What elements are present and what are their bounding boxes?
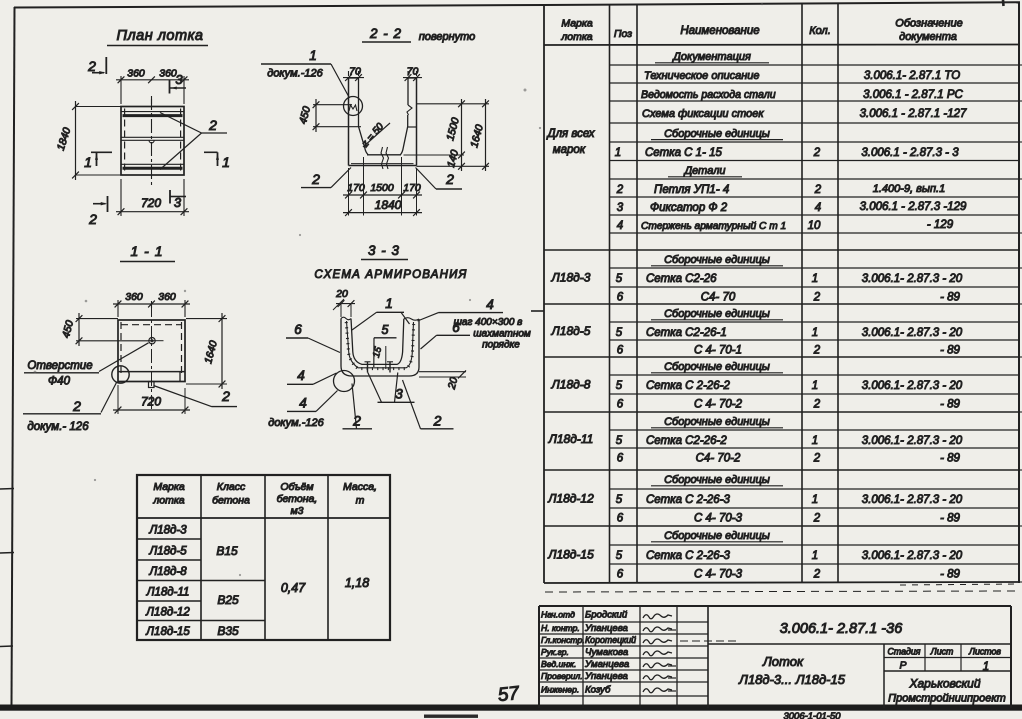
- svg-text:6: 6: [617, 345, 624, 357]
- svg-text:Бродский: Бродский: [585, 610, 628, 621]
- svg-text:0,47: 0,47: [281, 581, 306, 595]
- svg-text:170: 170: [347, 182, 365, 194]
- svg-text:2: 2: [813, 399, 821, 411]
- svg-text:1,18: 1,18: [345, 576, 369, 590]
- svg-text:1: 1: [222, 154, 230, 170]
- svg-text:докум.-126: докум.-126: [267, 68, 323, 80]
- svg-text:Кол.: Кол.: [809, 25, 831, 37]
- 1-1 label 2 / докум.-126 bottom left: [101, 383, 117, 413]
- svg-text:Л18д-8: Л18д-8: [148, 566, 187, 578]
- svg-text:1: 1: [812, 435, 818, 447]
- svg-text:- 89: - 89: [940, 399, 960, 411]
- svg-text:- 89: - 89: [940, 345, 960, 357]
- svg-text:1: 1: [84, 154, 92, 170]
- svg-text:Чумакова: Чумакова: [585, 647, 628, 658]
- svg-text:Сетка С 1- 15: Сетка С 1- 15: [645, 147, 722, 159]
- plan dim 360+360 top: [120, 76, 122, 104]
- svg-text:4: 4: [297, 368, 305, 383]
- svg-text:С 4- 70-2: С 4- 70-2: [694, 399, 743, 411]
- 1-1 dim 360+360: [117, 300, 119, 317]
- svg-text:170: 170: [403, 182, 421, 194]
- dim 450 left of section 2-2: [313, 104, 352, 106]
- svg-text:360: 360: [158, 291, 176, 303]
- fragment below bottom edge left: [424, 715, 478, 718]
- svg-text:1: 1: [812, 273, 818, 285]
- title block grid: [539, 606, 1011, 708]
- svg-text:Р: Р: [899, 660, 906, 672]
- dim 1840 bottom: [343, 212, 422, 214]
- wall crossing mark right (450 level): [408, 126, 417, 128]
- 1-1 dim 1640: [186, 318, 227, 320]
- 3-3 channel outer contour: [341, 319, 419, 377]
- svg-text:360: 360: [125, 291, 143, 303]
- svg-text:Л18д-15: Л18д-15: [145, 626, 190, 638]
- svg-text:2: 2: [87, 58, 96, 74]
- svg-text:2: 2: [813, 147, 821, 159]
- svg-text:Л18д-15: Л18д-15: [547, 548, 594, 562]
- svg-text:1: 1: [812, 327, 818, 339]
- right extension lines: [417, 103, 490, 105]
- svg-text:2: 2: [813, 292, 821, 304]
- svg-text:повернуто: повернуто: [419, 31, 476, 43]
- svg-text:2: 2: [445, 171, 454, 187]
- svg-text:Сборочные единицы: Сборочные единицы: [664, 254, 770, 266]
- svg-text:5: 5: [616, 327, 623, 339]
- svg-text:70: 70: [349, 66, 361, 78]
- svg-text:Сборочные единицы: Сборочные единицы: [664, 530, 770, 542]
- dim 70 right wall: [407, 71, 409, 76]
- svg-text:1: 1: [983, 661, 989, 673]
- svg-text:Л18д-3... Л18д-15: Л18д-3... Л18д-15: [738, 672, 846, 687]
- plan section mark 1 left: [91, 151, 112, 153]
- svg-text:шахматном: шахматном: [473, 329, 531, 340]
- fold mark right of drawing area: [531, 310, 544, 312]
- svg-text:2: 2: [311, 171, 320, 187]
- svg-text:3.006.1- 2.87.3 - 20: 3.006.1- 2.87.3 - 20: [862, 380, 963, 392]
- 1-1 hole label: Отверстие Ф40: [99, 343, 149, 372]
- svg-text:Инженер.: Инженер.: [541, 685, 579, 695]
- 3-3 wall top caps: [341, 317, 351, 320]
- 1-1 hole: [149, 338, 155, 344]
- svg-text:10: 10: [808, 220, 821, 232]
- svg-text:2: 2: [433, 413, 442, 429]
- svg-text:4: 4: [815, 202, 821, 214]
- svg-text:1.400-9, вып.1: 1.400-9, вып.1: [873, 183, 945, 195]
- spec table outer borders: [543, 5, 545, 583]
- plan section mark 3 top: [169, 80, 171, 94]
- svg-text:Фиксатор Ф 2: Фиксатор Ф 2: [650, 202, 728, 214]
- svg-text:- 89: - 89: [940, 569, 960, 581]
- svg-text:Л18д-12: Л18д-12: [547, 492, 594, 506]
- dims 170 1500 170: [348, 168, 350, 216]
- svg-text:Объём: Объём: [280, 481, 313, 493]
- 1-1 dim 450: [76, 318, 118, 320]
- svg-text:3 - 3: 3 - 3: [368, 243, 400, 258]
- svg-text:С 4- 70-3: С 4- 70-3: [694, 569, 743, 581]
- svg-text:1: 1: [385, 296, 393, 311]
- section 2-2 floor and slab: [367, 154, 401, 156]
- 3-3 channel inner contour: [351, 319, 404, 365]
- svg-text:6: 6: [617, 569, 624, 581]
- svg-text:Сетка С 2-26-2: Сетка С 2-26-2: [646, 380, 731, 392]
- svg-text:3.006.1- 2.87.1 -36: 3.006.1- 2.87.1 -36: [780, 621, 903, 637]
- 1-1 center line: [151, 303, 153, 411]
- svg-text:57: 57: [497, 683, 522, 706]
- svg-text:Масса,: Масса,: [343, 481, 377, 493]
- svg-text:3.006.1 - 2.87.3 - 3: 3.006.1 - 2.87.3 - 3: [861, 147, 959, 159]
- plan bottom band lines: [121, 163, 184, 165]
- svg-text:1500: 1500: [370, 182, 394, 194]
- svg-text:шаг 400×300 в: шаг 400×300 в: [454, 317, 523, 328]
- svg-text:- 89: - 89: [940, 292, 960, 304]
- svg-text:3.006.1- 2.87.3 - 20: 3.006.1- 2.87.3 - 20: [862, 550, 963, 562]
- svg-text:Л18д-11: Л18д-11: [146, 587, 190, 599]
- svg-text:720: 720: [141, 395, 161, 409]
- svg-text:Проверил.: Проверил.: [541, 671, 583, 681]
- svg-text:1: 1: [309, 48, 317, 63]
- svg-text:Вед.инж.: Вед.инж.: [541, 659, 576, 669]
- svg-text:Нач.отд: Нач.отд: [541, 610, 575, 620]
- svg-text:6: 6: [617, 453, 624, 465]
- svg-text:С 4- 70-3: С 4- 70-3: [694, 513, 743, 525]
- 3-3 rebar mesh line: [347, 321, 414, 368]
- svg-text:Сетка С2-26-2: Сетка С2-26-2: [646, 435, 727, 447]
- svg-text:Л18д-8: Л18д-8: [551, 378, 591, 392]
- svg-text:С4- 70-2: С4- 70-2: [696, 453, 741, 465]
- svg-text:3.006.1- 2.87.1 ТО: 3.006.1- 2.87.1 ТО: [864, 70, 960, 82]
- svg-text:2: 2: [813, 453, 821, 465]
- svg-text:Сборочные единицы: Сборочные единицы: [664, 474, 770, 486]
- svg-text:В15: В15: [216, 544, 238, 558]
- plan middle joint lines: [121, 136, 184, 138]
- svg-text:3.006.1 - 2.87.1 -127: 3.006.1 - 2.87.1 -127: [860, 108, 967, 120]
- 3-3 corner detail circle: [334, 371, 355, 392]
- svg-text:360: 360: [159, 68, 177, 80]
- svg-text:3.006.1- 2.87.3 - 20: 3.006.1- 2.87.3 - 20: [862, 494, 963, 506]
- svg-text:В35: В35: [217, 624, 239, 638]
- svg-text:Н. контр.: Н. контр.: [541, 623, 580, 633]
- svg-text:- 89: - 89: [940, 513, 960, 525]
- spec table row lines mark groups: [610, 267, 1020, 269]
- svg-text:3.006.1 - 2.87.1 РС: 3.006.1 - 2.87.1 РС: [863, 89, 963, 101]
- fold mark left 2: [0, 552, 14, 555]
- fold mark left 1: [0, 488, 14, 491]
- plan section mark 3 bottom: [169, 190, 171, 204]
- plan section mark 2 top left: [105, 57, 107, 74]
- svg-text:6: 6: [617, 513, 624, 525]
- svg-text:Отверстие: Отверстие: [27, 360, 92, 372]
- svg-text:докум.- 126: докум.- 126: [27, 421, 89, 433]
- svg-text:1 - 1: 1 - 1: [130, 243, 163, 259]
- svg-text:Обозначение: Обозначение: [895, 18, 962, 30]
- title block signatures: [643, 614, 672, 619]
- svg-text:Лист: Лист: [930, 647, 954, 657]
- svg-text:Стадия: Стадия: [888, 647, 921, 657]
- spec table header underline: [544, 44, 1019, 47]
- svg-text:360: 360: [127, 68, 145, 80]
- spec table row lines upper section: [610, 64, 1020, 66]
- svg-text:6: 6: [452, 320, 460, 335]
- svg-text:Схема фиксации стоек: Схема фиксации стоек: [642, 108, 764, 120]
- concrete grade table grid: [137, 475, 390, 640]
- svg-text:3: 3: [617, 202, 624, 214]
- plan section mark 1 right: [204, 151, 218, 153]
- dim 1640 right: [485, 99, 487, 171]
- svg-text:3.006.1- 2.87.3 - 20: 3.006.1- 2.87.3 - 20: [862, 435, 963, 447]
- svg-text:лотка: лотка: [152, 495, 184, 507]
- svg-text:Промстройниипроект: Промстройниипроект: [888, 693, 1006, 705]
- svg-text:Уманцева: Уманцева: [584, 659, 629, 670]
- svg-text:Сетка С 2-26-3: Сетка С 2-26-3: [646, 550, 731, 562]
- svg-text:Упанцева: Упанцева: [584, 623, 628, 634]
- 1-1 dashed line top: [121, 324, 181, 326]
- signature dash Гл.констр extended: [680, 640, 737, 642]
- svg-text:5: 5: [616, 550, 623, 562]
- detail circle on left wall top: [344, 97, 363, 116]
- slab break marks: [381, 147, 384, 169]
- svg-text:2: 2: [616, 184, 624, 196]
- svg-text:Л18д-5: Л18д-5: [551, 324, 591, 338]
- svg-text:документа: документа: [899, 31, 957, 43]
- svg-text:1: 1: [812, 550, 818, 562]
- svg-text:м3: м3: [290, 505, 303, 517]
- svg-text:СХЕМА АРМИРОВАНИЯ: СХЕМА АРМИРОВАНИЯ: [314, 269, 467, 281]
- sheet frame top line: [14, 5, 544, 8]
- svg-text:2 - 2: 2 - 2: [369, 26, 402, 41]
- svg-text:2: 2: [813, 513, 821, 525]
- svg-text:Л18д-5: Л18д-5: [148, 546, 187, 558]
- svg-text:Наименование: Наименование: [680, 25, 759, 37]
- svg-text:5: 5: [616, 494, 623, 506]
- svg-text:- 89: - 89: [940, 453, 960, 465]
- dim 1500/140 right: [461, 99, 463, 171]
- svg-text:1: 1: [615, 147, 621, 159]
- svg-text:4: 4: [299, 396, 307, 411]
- svg-text:докум.-126: докум.-126: [268, 417, 324, 429]
- svg-text:5: 5: [616, 273, 623, 285]
- svg-text:720: 720: [141, 196, 161, 210]
- svg-text:В25: В25: [217, 593, 239, 607]
- 1-1 bottom strip: [118, 371, 185, 373]
- svg-text:4: 4: [486, 297, 494, 312]
- 1-1 dim 720: [117, 385, 119, 414]
- svg-text:Л18д-3: Л18д-3: [148, 525, 187, 537]
- svg-text:2: 2: [72, 398, 81, 414]
- sheet frame left line: [12, 7, 15, 706]
- ink specks: [524, 89, 527, 92]
- svg-text:- 129: - 129: [927, 219, 954, 231]
- spec table dashed scan edge right: [1020, 64, 1022, 66]
- svg-text:Ведомость расхода стали: Ведомость расхода стали: [641, 89, 776, 101]
- svg-text:С 4- 70-1: С 4- 70-1: [694, 345, 742, 357]
- svg-text:2: 2: [88, 211, 97, 227]
- svg-text:Ф40: Ф40: [48, 376, 71, 388]
- svg-text:2: 2: [814, 184, 822, 196]
- svg-text:Марка: Марка: [153, 481, 185, 493]
- plan leader to pos 2: [160, 113, 202, 134]
- svg-text:20: 20: [335, 288, 348, 300]
- svg-text:6: 6: [294, 322, 302, 337]
- svg-text:Сетка С2-26-1: Сетка С2-26-1: [646, 327, 727, 339]
- svg-text:Л18д-3: Л18д-3: [551, 271, 591, 285]
- svg-text:Класс: Класс: [217, 481, 246, 493]
- svg-text:Для всех: Для всех: [545, 128, 595, 140]
- svg-text:т: т: [356, 495, 365, 507]
- plan dim 1840 left: [76, 106, 122, 108]
- svg-text:бетона: бетона: [212, 495, 250, 507]
- svg-text:Сборочные единицы: Сборочные единицы: [664, 128, 770, 140]
- svg-text:1: 1: [812, 380, 818, 392]
- svg-text:2: 2: [221, 388, 230, 404]
- svg-text:2: 2: [208, 117, 217, 133]
- svg-text:План лотка: План лотка: [117, 28, 204, 44]
- 1-1 corner detail circle: [112, 366, 129, 383]
- svg-text:порядке: порядке: [482, 340, 520, 351]
- sheet bottom thick edge line: [0, 705, 1022, 711]
- svg-text:4: 4: [617, 220, 623, 232]
- svg-text:70: 70: [407, 66, 419, 78]
- svg-text:Петля УП1- 4: Петля УП1- 4: [654, 184, 729, 196]
- plan top band lines: [121, 111, 184, 113]
- svg-text:Коротецкий: Коротецкий: [585, 635, 636, 645]
- svg-text:Документация: Документация: [671, 51, 751, 63]
- fold mark left 3: [0, 645, 13, 648]
- section 2-2 left wall: [348, 78, 350, 166]
- scan mark top right corner: [1002, 0, 1005, 6]
- svg-text:1840: 1840: [375, 198, 402, 212]
- svg-text:3: 3: [174, 195, 182, 210]
- svg-text:5: 5: [382, 323, 389, 337]
- svg-text:Козуб: Козуб: [585, 685, 611, 696]
- svg-text:Лоток: Лоток: [762, 654, 804, 669]
- section 2-2 right wall: [416, 78, 418, 166]
- svg-text:Листов: Листов: [968, 647, 1001, 657]
- svg-text:3006-1-01-50: 3006-1-01-50: [783, 711, 841, 719]
- svg-text:3.006.1- 2.87.3 - 20: 3.006.1- 2.87.3 - 20: [862, 273, 963, 285]
- svg-text:2: 2: [813, 345, 821, 357]
- svg-text:Детали: Детали: [682, 165, 725, 177]
- svg-text:Гл.констр.: Гл.констр.: [541, 635, 585, 645]
- 1-1 bottom tab: [149, 382, 155, 388]
- svg-text:Сборочные единицы: Сборочные единицы: [664, 416, 770, 428]
- svg-text:Марка: Марка: [561, 18, 593, 30]
- svg-text:Упанцева: Упанцева: [584, 671, 628, 682]
- svg-text:Стержень арматурный С т 1: Стержень арматурный С т 1: [641, 221, 786, 232]
- svg-text:бетона,: бетона,: [277, 493, 318, 505]
- svg-text:лотка: лотка: [560, 31, 592, 43]
- svg-text:5: 5: [616, 380, 623, 392]
- dim 70 left wall: [348, 71, 350, 76]
- svg-text:С4- 70: С4- 70: [701, 292, 736, 304]
- svg-text:Поз: Поз: [614, 28, 632, 40]
- svg-text:3.006.1- 2.87.3 - 20: 3.006.1- 2.87.3 - 20: [862, 327, 963, 339]
- section 1-1 square outline: [118, 320, 185, 382]
- plan dim 720 bottom: [116, 211, 189, 213]
- plan dashed wall line right: [180, 109, 182, 174]
- svg-text:Сборочные единицы: Сборочные единицы: [664, 308, 770, 320]
- svg-text:1: 1: [812, 494, 818, 506]
- 3-3 right extension lines and dim 20: [419, 371, 466, 373]
- svg-text:3: 3: [175, 72, 183, 87]
- svg-text:2: 2: [813, 569, 821, 581]
- svg-text:Сетка С2-26: Сетка С2-26: [646, 273, 717, 285]
- plan rectangle outline: [121, 107, 184, 176]
- svg-text:Л18д-12: Л18д-12: [145, 607, 190, 619]
- plan dashed wall line left: [124, 109, 126, 174]
- svg-text:Л18д-11: Л18д-11: [548, 432, 594, 446]
- svg-text:6: 6: [617, 292, 624, 304]
- dashed line below spec table: [545, 591, 1015, 592]
- plan vertical center line: [151, 96, 153, 187]
- svg-text:марок: марок: [553, 144, 586, 156]
- 3-3 slab transverse bars: [367, 362, 369, 373]
- svg-text:Техническое описание: Техническое описание: [644, 70, 760, 82]
- svg-text:6: 6: [617, 399, 624, 411]
- svg-text:Сборочные единицы: Сборочные единицы: [664, 361, 770, 373]
- 1-1 dashed wall lines: [120, 322, 122, 377]
- svg-text:Рук.гр.: Рук.гр.: [541, 647, 569, 657]
- spec table bottom line: [544, 582, 1019, 583]
- svg-text:Харьковский: Харьковский: [908, 677, 980, 691]
- plan section mark 2 bottom left: [107, 196, 109, 212]
- svg-text:3.006.1 - 2.87.3 -129: 3.006.1 - 2.87.3 -129: [860, 201, 967, 213]
- svg-text:5: 5: [616, 435, 623, 447]
- 3-3 rebar dots: [346, 322, 414, 369]
- svg-text:Сетка С 2-26-3: Сетка С 2-26-3: [646, 494, 731, 506]
